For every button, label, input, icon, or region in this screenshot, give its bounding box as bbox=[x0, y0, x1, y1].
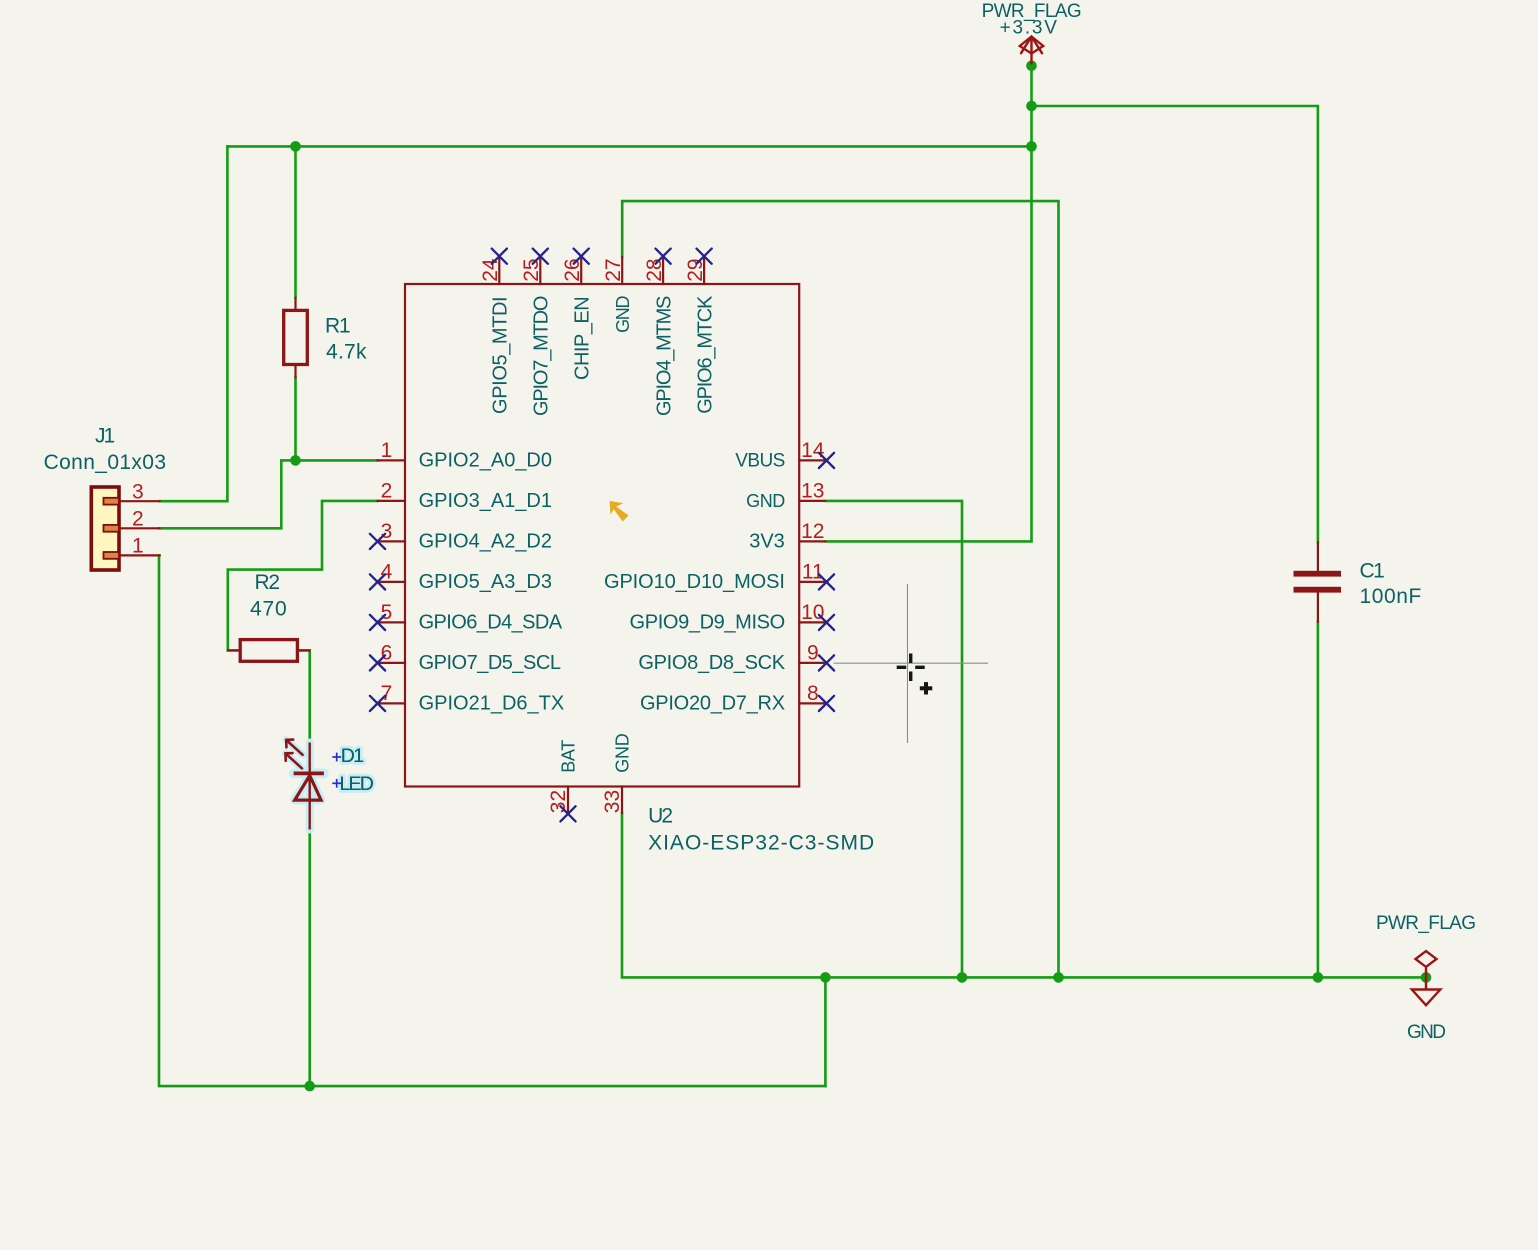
LED D1 selection halo bbox=[286, 740, 324, 830]
svg-text:11: 11 bbox=[802, 561, 824, 584]
wire LED cathode to GND bus bbox=[308, 830, 311, 1087]
no-connect pin 6 bbox=[370, 655, 385, 670]
U2 right pin 11 (GPIO10_D10_MOSI) bbox=[604, 561, 834, 593]
junction +3.3V flag bbox=[1026, 61, 1037, 72]
wire J1 pin2 to U2 pin1 GPIO2 bbox=[160, 460, 378, 528]
svg-text:GPIO21_D6_TX: GPIO21_D6_TX bbox=[419, 692, 565, 714]
svg-text:LED: LED bbox=[340, 773, 374, 795]
svg-text:+3.3V: +3.3V bbox=[1000, 17, 1059, 38]
power flag PWR_FLAG +3.3V symbol bbox=[1020, 37, 1043, 64]
no-connect pin 3 bbox=[370, 534, 385, 549]
resistor R2 pins bbox=[228, 649, 310, 651]
U2 top pin 27 (GND) bbox=[602, 257, 633, 333]
svg-text:GPIO7_D5_SCL: GPIO7_D5_SCL bbox=[419, 652, 561, 674]
svg-text:25: 25 bbox=[520, 258, 543, 281]
no-connect pin 26 bbox=[574, 249, 589, 264]
svg-text:R1: R1 bbox=[325, 314, 350, 337]
junction LED/GND rail bbox=[304, 1081, 315, 1092]
svg-text:GPIO4_A2_D2: GPIO4_A2_D2 bbox=[419, 530, 552, 552]
D1 anchor cross marks bbox=[332, 753, 341, 788]
svg-text:XIAO-ESP32-C3-SMD: XIAO-ESP32-C3-SMD bbox=[648, 832, 875, 855]
svg-text:3: 3 bbox=[132, 480, 144, 503]
svg-text:4.7k: 4.7k bbox=[326, 341, 367, 364]
svg-text:D1: D1 bbox=[341, 745, 364, 767]
svg-text:GPIO4_MTMS: GPIO4_MTMS bbox=[654, 296, 676, 416]
svg-text:GPIO7_MTDO: GPIO7_MTDO bbox=[531, 296, 553, 416]
svg-text:100nF: 100nF bbox=[1360, 585, 1422, 608]
svg-text:BAT: BAT bbox=[559, 740, 579, 773]
junction rail corner bbox=[1026, 141, 1037, 152]
no-connect pin 32 bbox=[560, 806, 575, 821]
U2 left pin 6 (GPIO7_D5_SCL) bbox=[370, 642, 561, 674]
svg-text:33: 33 bbox=[601, 790, 624, 813]
U2 left pin 3 (GPIO4_A2_D2) bbox=[370, 520, 552, 552]
svg-text:3: 3 bbox=[381, 520, 393, 543]
svg-text:VBUS: VBUS bbox=[735, 450, 785, 471]
svg-text:Conn_01x03: Conn_01x03 bbox=[44, 451, 167, 474]
capacitor C1 bbox=[1294, 571, 1342, 593]
svg-text:27: 27 bbox=[602, 258, 625, 281]
U2 right pin 10 (GPIO9_D9_MISO) bbox=[630, 601, 835, 633]
U2 top pin 29 (GPIO6_MTCK) bbox=[684, 249, 717, 414]
U2 left pin 4 (GPIO5_A3_D3) bbox=[370, 561, 552, 593]
no-connect pin 8 bbox=[819, 696, 834, 711]
cursor plus badge bbox=[920, 682, 933, 694]
wire U2 pin33 GND down to GND bus bbox=[622, 813, 1426, 977]
ground symbol GND bbox=[1412, 977, 1441, 1005]
no-connect pin 24 bbox=[492, 249, 507, 264]
U2 right pin 9 (GPIO8_D8_SCK) bbox=[638, 642, 834, 674]
J1 pin 1 bbox=[104, 535, 160, 559]
U2 right pin 8 (GPIO20_D7_RX) bbox=[640, 682, 834, 714]
LED D1 symbol bbox=[286, 740, 324, 830]
svg-text:GND: GND bbox=[1407, 1022, 1445, 1043]
connector J1 body bbox=[91, 487, 119, 570]
svg-text:GPIO5_A3_D3: GPIO5_A3_D3 bbox=[419, 571, 552, 593]
selection anchor arrow bbox=[610, 501, 629, 522]
resistor R2 body bbox=[240, 640, 297, 662]
svg-text:2: 2 bbox=[132, 507, 144, 530]
wire +3.3V branch to C1 top bbox=[1032, 106, 1318, 542]
junction rail/R1 tap bbox=[290, 141, 301, 152]
U2 top pin 28 (GPIO4_MTMS) bbox=[643, 249, 676, 416]
no-connect pin 5 bbox=[370, 615, 385, 630]
svg-text:26: 26 bbox=[561, 258, 584, 281]
svg-text:7: 7 bbox=[381, 682, 393, 705]
U2 right pin 12 (3V3) bbox=[749, 520, 825, 552]
J1 pin 2 bbox=[104, 507, 160, 531]
svg-text:1: 1 bbox=[132, 535, 144, 558]
svg-text:3V3: 3V3 bbox=[749, 530, 785, 552]
U2 left pin 5 (GPIO6_D4_SDA) bbox=[370, 601, 563, 633]
U2 right pin 13 (GND) bbox=[746, 480, 825, 511]
mouse cursor cross bbox=[897, 654, 925, 682]
svg-text:4: 4 bbox=[381, 561, 393, 584]
wire C1 bottom to GND bus bbox=[1317, 622, 1320, 978]
svg-text:5: 5 bbox=[381, 601, 393, 624]
editor crosshair bbox=[834, 584, 989, 743]
wire R1 top to +3.3V rail bbox=[294, 146, 297, 297]
junction pin13 GND tap bbox=[957, 972, 968, 983]
svg-text:14: 14 bbox=[801, 439, 825, 462]
svg-text:13: 13 bbox=[801, 480, 824, 503]
no-connect pin 11 bbox=[819, 574, 834, 589]
svg-text:6: 6 bbox=[381, 642, 393, 665]
svg-text:24: 24 bbox=[479, 258, 502, 282]
no-connect pin 29 bbox=[697, 249, 712, 264]
wire +3.3V vertical from PWR_FLAG to pin 12 (3V3) bbox=[826, 66, 1032, 542]
U2 top pin 24 (GPIO5_MTDI) bbox=[479, 249, 512, 414]
svg-text:GPIO10_D10_MOSI: GPIO10_D10_MOSI bbox=[604, 571, 785, 593]
U2 bottom pin 32 (BAT) bbox=[547, 740, 579, 822]
wire R2 right to LED anode bbox=[297, 650, 309, 742]
no-connect pin 10 bbox=[819, 615, 834, 630]
U2 left pin 7 (GPIO21_D6_TX) bbox=[370, 682, 564, 714]
J1 pin 3 bbox=[104, 480, 160, 504]
power flag PWR_FLAG (bottom) symbol bbox=[1416, 951, 1437, 977]
svg-text:C1: C1 bbox=[1360, 560, 1385, 583]
wire GND riser from bottom rail bbox=[824, 977, 827, 1086]
svg-text:GND: GND bbox=[613, 296, 633, 333]
U2 left pin 1 (GPIO2_A0_D0) bbox=[378, 439, 553, 471]
svg-text:12: 12 bbox=[801, 520, 824, 543]
junction GND rail riser bbox=[820, 972, 831, 983]
svg-text:J1: J1 bbox=[95, 424, 115, 447]
svg-text:R2: R2 bbox=[255, 571, 280, 594]
resistor R1 body bbox=[284, 310, 308, 364]
junction C1 GND tap bbox=[1313, 972, 1324, 983]
svg-text:GPIO8_D8_SCK: GPIO8_D8_SCK bbox=[638, 652, 785, 674]
junction R1/GPIO2 node bbox=[290, 455, 301, 466]
resistor R1 pins bbox=[294, 298, 296, 377]
svg-text:GND: GND bbox=[746, 491, 785, 511]
svg-text:GPIO20_D7_RX: GPIO20_D7_RX bbox=[640, 692, 785, 714]
junction +3.3V/C1 tap bbox=[1026, 101, 1037, 112]
svg-text:9: 9 bbox=[807, 642, 819, 665]
wire U2 pin13 GND to bus bbox=[826, 501, 962, 978]
junction pin27 GND tap bbox=[1053, 972, 1064, 983]
svg-text:8: 8 bbox=[807, 682, 819, 705]
capacitor C1 pins bbox=[1317, 542, 1319, 621]
svg-text:32: 32 bbox=[547, 790, 570, 813]
svg-text:CHIP_EN: CHIP_EN bbox=[572, 297, 594, 380]
svg-text:GPIO6_D4_SDA: GPIO6_D4_SDA bbox=[419, 611, 563, 633]
svg-text:GND: GND bbox=[613, 733, 633, 773]
svg-text:1: 1 bbox=[381, 439, 393, 462]
wire R1 bottom to node GPIO2 bbox=[294, 377, 297, 460]
svg-text:GPIO3_A1_D1: GPIO3_A1_D1 bbox=[419, 490, 552, 512]
svg-text:GPIO9_D9_MISO: GPIO9_D9_MISO bbox=[630, 611, 785, 633]
wire U2 pin27 GND up and over to bus bbox=[622, 201, 1058, 977]
junction PWR_FLAG GND tap bbox=[1421, 972, 1432, 983]
svg-text:28: 28 bbox=[643, 258, 666, 281]
svg-text:470: 470 bbox=[250, 597, 288, 620]
svg-text:GPIO2_A0_D0: GPIO2_A0_D0 bbox=[419, 449, 552, 471]
U2 top pin 26 (CHIP_EN) bbox=[561, 249, 594, 380]
no-connect pin 7 bbox=[370, 696, 385, 711]
svg-text:GPIO5_MTDI: GPIO5_MTDI bbox=[490, 297, 512, 414]
no-connect pin 25 bbox=[533, 249, 548, 264]
svg-text:29: 29 bbox=[684, 258, 707, 281]
svg-text:10: 10 bbox=[801, 601, 824, 624]
svg-text:PWR_FLAG: PWR_FLAG bbox=[1376, 913, 1475, 934]
U2 bottom pin 33 (GND) bbox=[601, 733, 633, 813]
no-connect pin 9 bbox=[819, 655, 834, 670]
IC U2 XIAO-ESP32-C3-SMD body bbox=[405, 284, 799, 787]
wire +3.3V horizontal to R1/J1 branch bbox=[227, 145, 1031, 148]
svg-text:GPIO6_MTCK: GPIO6_MTCK bbox=[695, 295, 717, 414]
svg-text:2: 2 bbox=[381, 480, 393, 503]
no-connect pin 14 bbox=[819, 453, 834, 468]
no-connect pin 4 bbox=[370, 574, 385, 589]
wire U2 pin2 GPIO3 to R2 left bbox=[228, 501, 378, 651]
wire J1 pin1 to GND bottom rail bbox=[159, 555, 825, 1086]
U2 left pin 2 (GPIO3_A1_D1) bbox=[378, 480, 553, 512]
U2 top pin 25 (GPIO7_MTDO) bbox=[520, 249, 553, 416]
wire J1 pin3 to +3.3V rail bbox=[160, 146, 228, 501]
svg-text:U2: U2 bbox=[648, 804, 672, 827]
U2 right pin 14 (VBUS) bbox=[735, 439, 834, 471]
no-connect pin 28 bbox=[656, 249, 671, 264]
